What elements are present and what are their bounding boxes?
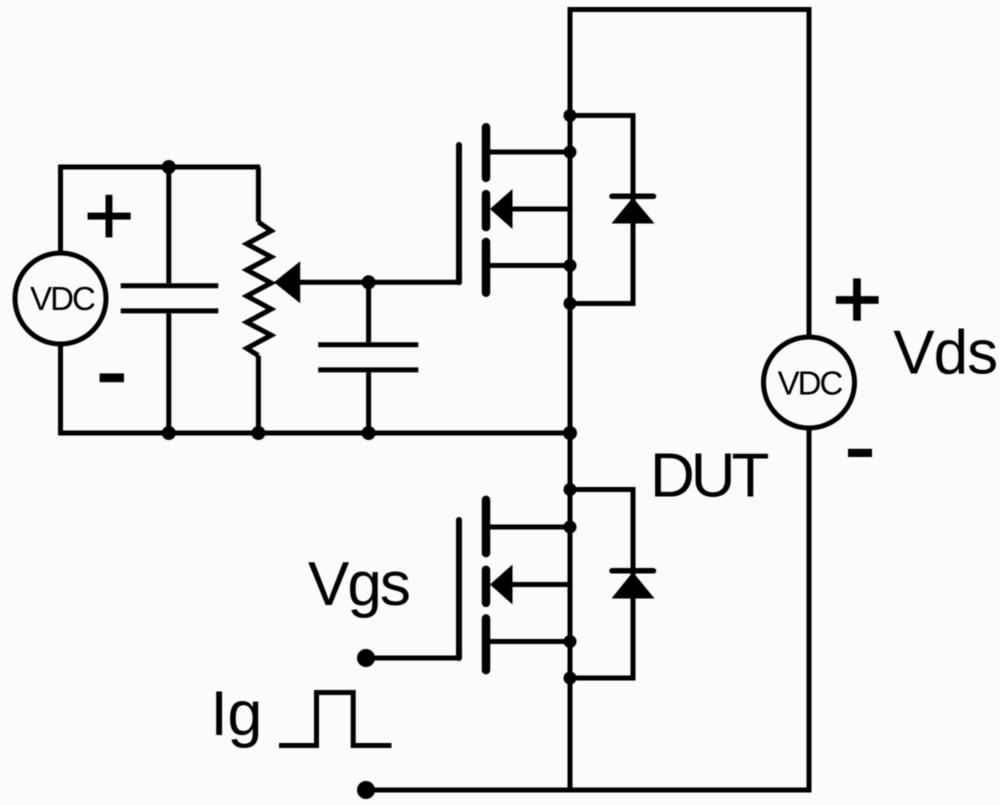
node dots upper section (162, 109, 577, 440)
wire right bus lower segment and bottom rail (366, 430, 809, 791)
mosfet M1 drain lead (486, 150, 570, 155)
current pulse symbol (279, 693, 392, 746)
diode D2 branch wires (570, 490, 633, 679)
diode D1 branch wires (570, 116, 633, 304)
capacitor C2 (318, 282, 418, 433)
diode D1 triangle (612, 198, 655, 224)
terminal dot Vgs gate (357, 649, 375, 667)
diode D2 cathode bar (612, 568, 654, 574)
voltage source VDC V2 (764, 337, 855, 428)
svg-text:DUT: DUT (650, 442, 769, 511)
voltage source VDC V1 (15, 253, 106, 344)
mosfet M2 channel dashes (482, 500, 491, 670)
wire left VDC bottom lead and left circuit bottom rail (61, 346, 571, 434)
plus label of V2 (836, 278, 879, 320)
diode D1 cathode bar (612, 194, 654, 200)
minus label of V1 (100, 373, 124, 382)
wire wiper to gate of M1 (298, 280, 459, 285)
mosfet M1 channel dashes (482, 127, 491, 293)
mosfet M1 body arrow (490, 189, 513, 229)
plus label of V1 (88, 195, 131, 238)
mosfet M1 body lead (510, 207, 570, 212)
svg-text:VDC: VDC (30, 280, 95, 317)
mosfet M2 gate lead (366, 656, 459, 661)
minus label of V2 (848, 449, 872, 457)
mosfet M2 source lead (486, 639, 570, 644)
diode D2 triangle (612, 572, 655, 599)
capacitor C1 (121, 167, 219, 433)
mosfet M2 gate plate (456, 520, 462, 658)
svg-text:Vds: Vds (893, 319, 997, 388)
node dots lower section (564, 483, 577, 685)
potentiometer R1 (247, 167, 271, 433)
mosfet M1 source lead (486, 263, 570, 268)
svg-text:VDC: VDC (778, 365, 843, 402)
wire top rail and right bus upper segment (570, 10, 809, 791)
svg-text:Vgs: Vgs (308, 550, 409, 619)
mosfet M2 body lead (510, 582, 570, 587)
svg-text:Ig: Ig (210, 679, 262, 749)
mosfet M2 drain lead (486, 525, 570, 530)
wire left circuit top rail (61, 167, 261, 252)
mosfet M1 gate plate (456, 145, 462, 282)
potentiometer wiper arrow (274, 261, 300, 303)
mosfet M2 body arrow (490, 565, 513, 605)
terminal dot bottom rail (357, 781, 375, 799)
